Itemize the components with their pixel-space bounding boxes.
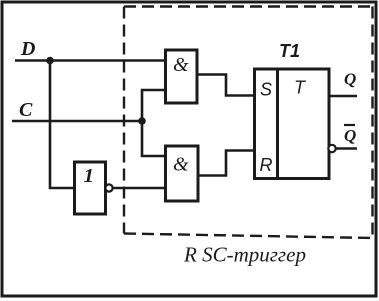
wire AND1 output to S: [197, 75, 254, 96]
wire inverter output to AND2: [113, 187, 166, 190]
dashed box RSC-trigger boundary right edge: [371, 7, 373, 239]
wire AND2 output to R: [198, 151, 254, 176]
dashed box RSC-trigger boundary top edge: [124, 5, 373, 7]
AND gate box top (&): [166, 50, 198, 103]
svg-text:R SC-триггер: R SC-триггер: [183, 243, 306, 267]
svg-text:T1: T1: [279, 41, 300, 61]
dashed box RSC-trigger boundary bottom edge: [124, 234, 373, 239]
wire D input: [15, 59, 165, 62]
flip-flop T1 box: [255, 69, 330, 179]
svg-text:R: R: [260, 155, 273, 175]
svg-text:S: S: [260, 80, 272, 100]
wire C input: [12, 120, 142, 123]
inverter box (1): [75, 162, 106, 214]
svg-text:Q: Q: [344, 70, 356, 89]
svg-text:D: D: [20, 38, 35, 60]
wire C branch down to AND2: [142, 121, 165, 156]
svg-text:&: &: [173, 154, 189, 176]
svg-text:&: &: [173, 54, 189, 76]
wire C branch up to AND1: [142, 90, 165, 121]
svg-text:1: 1: [84, 166, 95, 187]
wire D branch down to inverter: [50, 61, 74, 189]
overbar of Q-bar: [344, 124, 355, 126]
wire Q-bar output: [336, 147, 357, 150]
Q-bar inversion bubble: [328, 145, 335, 152]
dashed box RSC-trigger boundary left edge: [123, 7, 125, 234]
flip-flop divider: [276, 69, 279, 179]
wire Q output: [329, 95, 357, 98]
node C junction: [138, 117, 146, 125]
svg-text:C: C: [19, 99, 33, 121]
inverter output bubble: [105, 184, 112, 191]
svg-text:Q: Q: [344, 126, 356, 145]
node D junction: [46, 57, 54, 65]
AND gate box bottom (&): [166, 146, 199, 201]
